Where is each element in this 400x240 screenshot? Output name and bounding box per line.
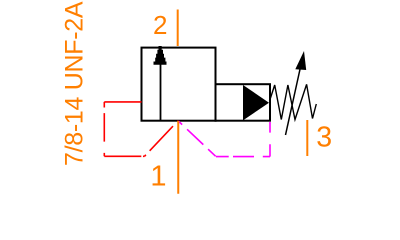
drain line magenta dashed: diagonal xyxy=(178,121,216,157)
port 3 wire xyxy=(306,120,308,156)
poppet triangle xyxy=(243,85,269,120)
valve body main box xyxy=(142,48,216,121)
svg-text:1: 1 xyxy=(150,160,166,192)
pilot line red dashed: bottom horizontal xyxy=(104,155,144,157)
svg-text:3: 3 xyxy=(316,121,332,153)
flow arrowhead xyxy=(154,46,167,65)
flow arrow stem xyxy=(160,64,162,121)
adjustment arrowhead xyxy=(295,51,306,70)
pilot line red dashed: top horizontal xyxy=(104,101,141,103)
svg-text:7/8-14 UNF-2A: 7/8-14 UNF-2A xyxy=(61,1,89,166)
pilot line red dashed: left vertical xyxy=(103,102,105,156)
drain line magenta dashed: right vertical xyxy=(269,122,271,157)
svg-text:2: 2 xyxy=(153,10,167,40)
port 2 wire xyxy=(177,10,179,47)
port 1 wire xyxy=(177,121,179,194)
solenoid/right box section xyxy=(216,84,271,121)
adjustment arrow shaft xyxy=(286,67,301,135)
spring xyxy=(270,84,317,119)
pilot line red dashed: diagonal xyxy=(145,121,179,157)
drain line magenta dashed: bottom horizontal xyxy=(216,156,270,158)
